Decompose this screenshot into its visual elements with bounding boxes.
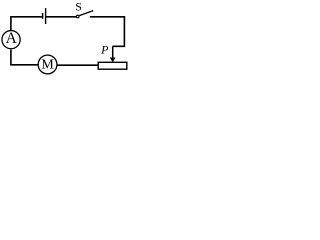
ammeter A circle — [2, 31, 20, 49]
rheostat wiper arrowhead — [110, 58, 116, 63]
battery cell: long positive plate — [45, 8, 47, 24]
wire motor to bottom-left corner, up to ammeter — [11, 50, 38, 65]
rheostat wiper arrow stem — [112, 46, 114, 58]
svg-text:A: A — [6, 30, 18, 47]
wire switch to top-right corner, down right side, jog to wiper — [90, 17, 125, 47]
svg-text:P: P — [100, 42, 109, 56]
wire rheostat to motor — [58, 64, 99, 66]
wire top-left (battery to top-left corner, down to ammeter) — [11, 17, 42, 31]
battery cell: short negative plate — [42, 13, 44, 19]
motor M circle — [38, 55, 57, 74]
svg-text:M: M — [41, 57, 54, 72]
svg-text:S: S — [75, 0, 82, 13]
switch S pivot contact — [76, 15, 79, 18]
switch S blade (open) — [79, 11, 93, 16]
wire battery to switch — [46, 16, 77, 18]
rheostat R resistor box — [98, 62, 127, 69]
